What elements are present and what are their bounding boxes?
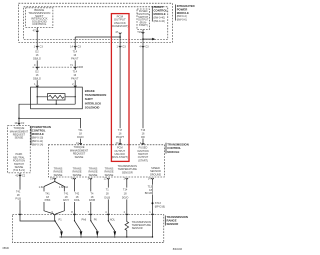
svg-text:P1: P1 (59, 217, 63, 221)
svg-text:41: 41 (15, 173, 18, 177)
svg-text:T14: T14 (123, 188, 128, 192)
svg-text:T41: T41 (16, 190, 21, 194)
svg-text:4: 4 (105, 210, 107, 214)
svg-text:(8W-0-40): (8W-0-40) (154, 15, 166, 19)
svg-text:SENSOR: SENSOR (167, 222, 179, 226)
svg-text:DB/LG: DB/LG (33, 76, 41, 80)
svg-text:D2: D2 (35, 70, 39, 74)
svg-text:47: 47 (116, 141, 119, 145)
svg-text:CONTROL: CONTROL (32, 22, 47, 26)
svg-text:7: 7 (88, 210, 90, 214)
svg-text:P/BK: P/BK (45, 198, 51, 202)
svg-text:T13: T13 (148, 184, 153, 188)
svg-text:1: 1 (34, 45, 36, 49)
svg-text:GROUND: GROUND (150, 172, 161, 176)
svg-text:2: 2 (72, 82, 74, 86)
svg-text:SENSE: SENSE (105, 173, 114, 177)
svg-text:(8W-0-14): (8W-0-14) (32, 143, 44, 147)
svg-text:08M0: 08M0 (3, 246, 10, 250)
svg-text:(8W-0-42): (8W-0-42) (154, 19, 166, 23)
svg-text:D2: D2 (35, 49, 39, 53)
svg-text:80b02t6: 80b02t6 (173, 247, 183, 251)
svg-text:2: 2 (124, 210, 126, 214)
svg-text:DB/LG: DB/LG (33, 57, 41, 61)
svg-text:MODULE: MODULE (167, 150, 179, 154)
svg-text:47: 47 (33, 29, 36, 33)
svg-text:T16: T16 (141, 128, 146, 132)
svg-text:(RUN&START): (RUN&START) (111, 24, 128, 28)
svg-text:P6: P6 (94, 217, 98, 221)
svg-text:PK/WT: PK/WT (116, 135, 125, 139)
svg-text:4: 4 (139, 45, 141, 49)
svg-text:D/OB: D/OB (89, 198, 96, 202)
svg-text:14: 14 (148, 177, 151, 181)
svg-text:2: 2 (124, 177, 126, 181)
svg-text:SENSE: SENSE (75, 155, 84, 159)
svg-text:PK/VT: PK/VT (71, 57, 79, 61)
svg-text:SENSE: SENSE (15, 136, 24, 140)
svg-text:MODULE: MODULE (32, 132, 44, 136)
svg-text:1.6L/NA: 1.6L/NA (59, 185, 69, 189)
svg-text:C3: C3 (122, 45, 126, 49)
svg-text:C2: C2 (21, 121, 25, 125)
svg-text:14: 14 (70, 45, 73, 49)
svg-text:T42: T42 (75, 191, 80, 195)
svg-text:PK/VT: PK/VT (71, 76, 79, 80)
svg-text:41: 41 (76, 141, 79, 145)
svg-text:SENSE: SENSE (54, 173, 63, 177)
svg-text:47: 47 (115, 30, 118, 34)
svg-text:10: 10 (14, 121, 17, 125)
svg-text:DG/O: DG/O (122, 196, 129, 200)
svg-text:19: 19 (50, 177, 53, 181)
svg-text:71: 71 (70, 63, 73, 67)
svg-text:PA6: PA6 (82, 217, 87, 221)
svg-text:NOL: NOL (110, 217, 116, 221)
svg-text:T41: T41 (45, 191, 50, 195)
svg-text:(T41 8-21): (T41 8-21) (13, 168, 25, 172)
svg-text:SOLENOID: SOLENOID (85, 105, 100, 109)
svg-text:(8W-0-10): (8W-0-10) (32, 136, 44, 140)
svg-text:9: 9 (34, 63, 36, 67)
svg-text:T16: T16 (137, 30, 142, 34)
svg-text:P/LB: P/LB (15, 196, 21, 200)
svg-text:C3: C3 (78, 45, 82, 49)
svg-text:T14: T14 (73, 49, 78, 53)
svg-text:1.6L: 1.6L (39, 185, 45, 189)
svg-text:1: 1 (116, 45, 118, 49)
svg-text:SENSOR: SENSOR (122, 170, 133, 174)
svg-text:DG/O: DG/O (77, 135, 84, 139)
svg-text:C2: C2 (22, 173, 26, 177)
svg-text:(RUN-START): (RUN-START) (112, 155, 128, 159)
svg-text:MODULE: MODULE (154, 12, 166, 16)
svg-text:RD: RD (141, 135, 145, 139)
svg-text:T17: T17 (118, 128, 123, 132)
svg-text:SENSE: SENSE (73, 173, 82, 177)
svg-text:1: 1 (34, 82, 36, 86)
svg-text:1: 1 (149, 210, 151, 214)
svg-text:T41: T41 (64, 191, 69, 195)
svg-text:(8W-0-6): (8W-0-6) (177, 18, 187, 22)
svg-text:D/OY: D/OY (63, 198, 70, 202)
svg-text:(8W-0-4): (8W-0-4) (177, 14, 187, 18)
svg-text:C3: C3 (40, 45, 44, 49)
svg-text:8: 8 (71, 210, 73, 214)
svg-text:D/LB: D/LB (104, 196, 110, 200)
svg-text:C3: C3 (145, 45, 149, 49)
svg-text:(START): (START) (138, 158, 148, 162)
svg-text:SENSOR: SENSOR (132, 226, 143, 230)
svg-text:START): START) (139, 23, 148, 27)
svg-text:4: 4 (71, 177, 73, 181)
svg-text:(8P-D16): (8P-D16) (155, 204, 165, 208)
svg-text:T14: T14 (73, 70, 78, 74)
svg-text:MODULE: MODULE (177, 11, 189, 15)
svg-text:SENSE: SENSE (89, 173, 98, 177)
svg-text:BK/LB: BK/LB (145, 191, 153, 195)
svg-text:C206: C206 (77, 65, 84, 69)
svg-text:T41: T41 (78, 128, 83, 132)
svg-text:4: 4 (140, 141, 142, 145)
svg-text:D/OL: D/OL (74, 198, 81, 202)
svg-text:(8W-0-11): (8W-0-11) (32, 139, 43, 143)
